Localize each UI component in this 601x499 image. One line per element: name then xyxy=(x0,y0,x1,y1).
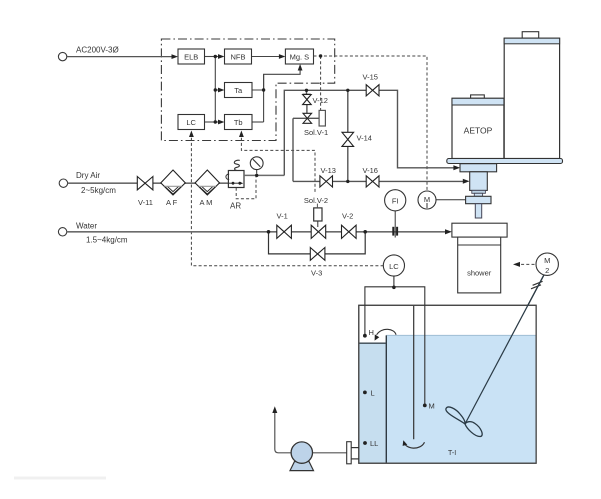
svg-text:Sol.V-1: Sol.V-1 xyxy=(304,128,328,137)
svg-text:H: H xyxy=(369,328,374,337)
svg-text:shower: shower xyxy=(467,268,492,277)
svg-text:T-I: T-I xyxy=(448,450,456,457)
svg-text:V-11: V-11 xyxy=(138,198,153,207)
svg-text:Sol.V-2: Sol.V-2 xyxy=(304,196,328,205)
svg-text:LC: LC xyxy=(186,118,196,127)
svg-text:M: M xyxy=(424,195,430,204)
svg-text:V-3: V-3 xyxy=(311,269,322,278)
svg-text:Mg. S: Mg. S xyxy=(290,52,310,61)
svg-text:LC: LC xyxy=(389,262,399,271)
svg-text:Dry Air: Dry Air xyxy=(76,171,100,180)
svg-text:V-15: V-15 xyxy=(363,72,378,81)
svg-text:M: M xyxy=(429,401,435,410)
svg-text:A F: A F xyxy=(166,198,178,207)
svg-text:V-13: V-13 xyxy=(321,166,336,175)
svg-text:FI: FI xyxy=(392,197,399,206)
svg-text:V-1: V-1 xyxy=(277,212,288,221)
svg-text:V-14: V-14 xyxy=(357,134,372,143)
svg-text:A M: A M xyxy=(200,198,213,207)
svg-text:M: M xyxy=(544,256,550,265)
svg-text:2~5kg/cm: 2~5kg/cm xyxy=(81,186,116,195)
svg-text:2: 2 xyxy=(545,266,549,275)
svg-text:Ta: Ta xyxy=(234,86,243,95)
svg-text:NFB: NFB xyxy=(231,52,246,61)
svg-text:AR: AR xyxy=(230,202,241,211)
svg-text:1.5~4kg/cm: 1.5~4kg/cm xyxy=(86,236,128,245)
svg-text:AETOP: AETOP xyxy=(464,126,493,136)
svg-text:Water: Water xyxy=(76,221,97,230)
svg-text:LL: LL xyxy=(370,439,378,448)
svg-text:L: L xyxy=(371,389,375,398)
svg-text:Tb: Tb xyxy=(234,118,243,127)
svg-text:V-16: V-16 xyxy=(363,166,378,175)
svg-text:V-12: V-12 xyxy=(313,96,328,105)
svg-text:AC200V-3Ø: AC200V-3Ø xyxy=(76,46,119,55)
svg-text:V-2: V-2 xyxy=(342,212,353,221)
svg-text:ELB: ELB xyxy=(184,52,198,61)
